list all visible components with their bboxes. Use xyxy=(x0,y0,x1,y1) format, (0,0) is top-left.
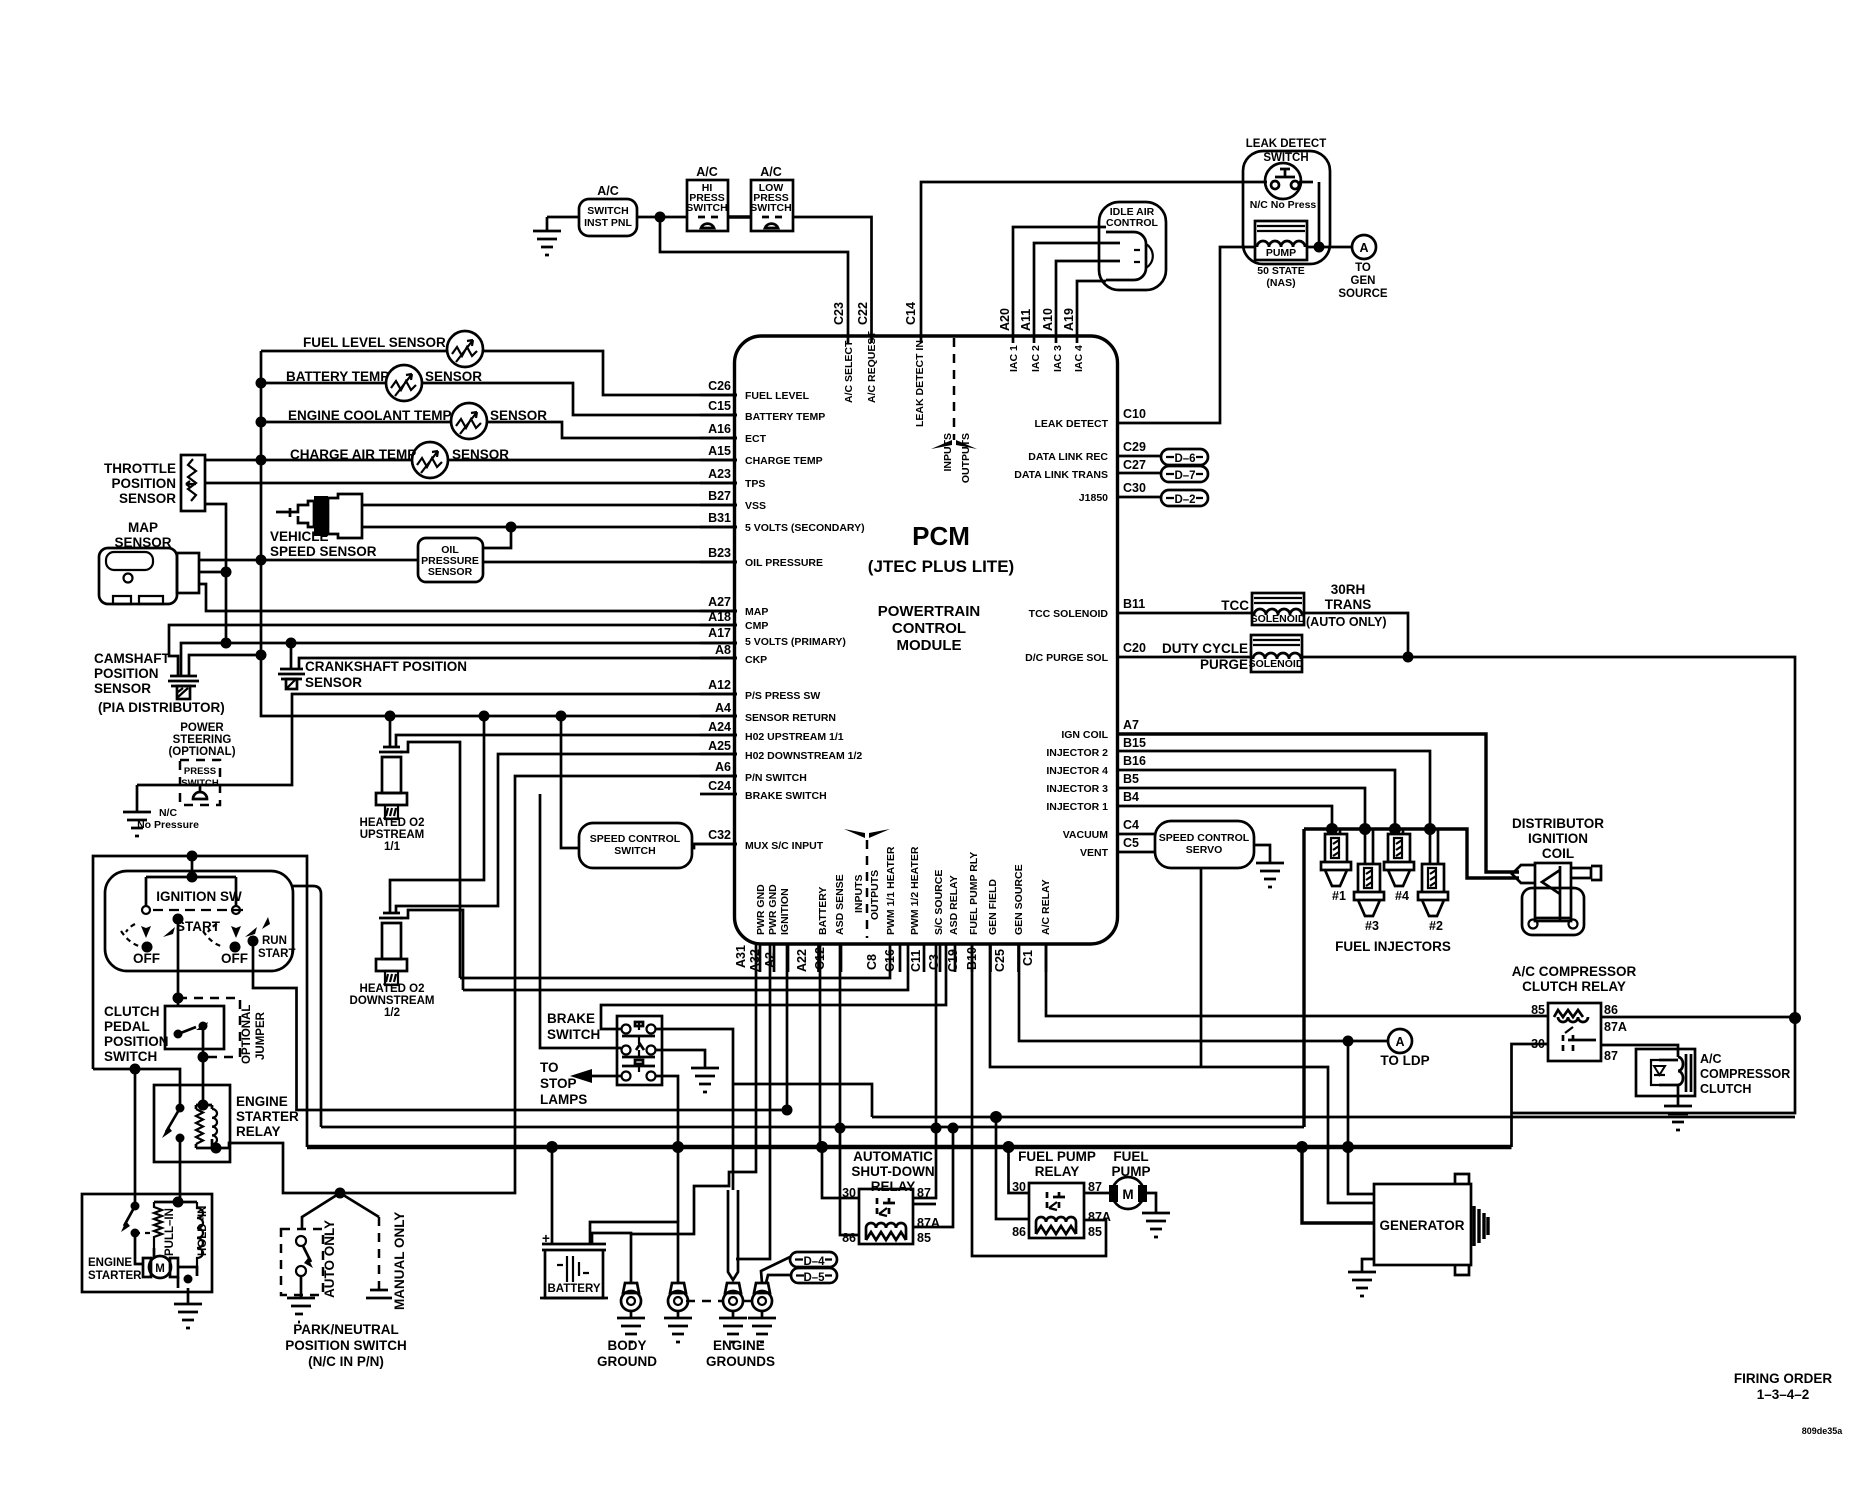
svg-text:TCC: TCC xyxy=(1221,598,1249,613)
A/C low press switch S3 xyxy=(751,180,793,231)
node purge junction xyxy=(1403,652,1414,663)
battery B1 xyxy=(540,1147,608,1298)
svg-text:DATA LINK TRANS: DATA LINK TRANS xyxy=(1014,469,1108,481)
wire a/c relay 86 to junction xyxy=(1601,1016,1795,1019)
node injector 2 feed xyxy=(1424,823,1436,835)
svg-text:85: 85 xyxy=(917,1231,931,1245)
svg-text:B11: B11 xyxy=(1123,597,1145,611)
svg-text:ECT: ECT xyxy=(745,433,767,445)
svg-text:B5: B5 xyxy=(1123,772,1139,786)
svg-text:RELAY: RELAY xyxy=(1035,1164,1080,1179)
clutch pedal position switch S8 xyxy=(104,1004,224,1064)
inputs/outputs marker top xyxy=(953,338,956,440)
node injector 1 feed xyxy=(1326,823,1338,835)
svg-text:PCM: PCM xyxy=(912,521,970,551)
svg-text:IAC 4: IAC 4 xyxy=(1073,345,1085,372)
svg-text:SOLENOID: SOLENOID xyxy=(1251,613,1306,625)
svg-text:INST PNL: INST PNL xyxy=(584,217,632,229)
node ignition feed xyxy=(187,851,198,862)
node TPS/MAP 5v junction xyxy=(221,638,232,649)
svg-text:1–3–4–2: 1–3–4–2 xyxy=(1757,1387,1810,1402)
leak detect switch S4 xyxy=(1243,138,1330,264)
svg-text:IGNITION: IGNITION xyxy=(1528,831,1588,846)
speed control servo U8 xyxy=(1155,821,1254,868)
svg-text:M: M xyxy=(1122,1187,1133,1202)
svg-text:FUEL: FUEL xyxy=(1113,1149,1148,1164)
svg-text:B16: B16 xyxy=(1123,754,1146,768)
wire B10 gen field xyxy=(990,944,1374,1203)
svg-text:H02 UPSTREAM 1/1: H02 UPSTREAM 1/1 xyxy=(745,731,844,743)
wire hi press to low press xyxy=(728,215,751,218)
svg-text:LEAK DETECT: LEAK DETECT xyxy=(1035,418,1109,430)
svg-text:MAP: MAP xyxy=(745,606,768,618)
wire cam sensor return xyxy=(189,655,261,676)
svg-text:PULL–IN: PULL–IN xyxy=(164,1208,176,1256)
svg-text:C19: C19 xyxy=(946,949,960,972)
svg-text:SWITCH: SWITCH xyxy=(686,202,727,214)
svg-text:POSITION: POSITION xyxy=(94,666,159,681)
svg-text:CLUTCH: CLUTCH xyxy=(104,1004,160,1019)
wire generator ground lead xyxy=(1362,1259,1374,1272)
ground (engine starter) xyxy=(174,1288,202,1328)
svg-text:A12: A12 xyxy=(708,678,731,692)
svg-text:FUEL LEVEL: FUEL LEVEL xyxy=(745,390,810,402)
svg-text:SWITCH: SWITCH xyxy=(614,845,655,857)
engine starter relay K1 xyxy=(154,1085,299,1162)
svg-text:30: 30 xyxy=(1012,1180,1026,1194)
svg-text:OPTIONAL: OPTIONAL xyxy=(241,1005,253,1064)
wire C19 fuel pump rly xyxy=(972,944,1106,1256)
svg-text:RUN: RUN xyxy=(262,935,287,947)
wire C11 s/c source to ASD 87 xyxy=(914,944,936,1198)
wire brake row3 to stop lamps xyxy=(592,1075,621,1078)
svg-text:TPS: TPS xyxy=(745,478,765,490)
svg-text:INJECTOR 3: INJECTOR 3 xyxy=(1046,783,1108,795)
svg-text:HEATED O2: HEATED O2 xyxy=(360,983,425,995)
svg-text:85: 85 xyxy=(1088,1225,1102,1239)
wire A7 ign coil xyxy=(1117,734,1519,872)
wire starter relay feed xyxy=(93,1069,180,1108)
wire injector 3 terminals xyxy=(1365,829,1373,864)
svg-text:AUTO ONLY: AUTO ONLY xyxy=(322,1220,337,1298)
svg-text:C24: C24 xyxy=(708,779,731,793)
PCM module box U1 xyxy=(735,336,1118,944)
wire PWM 1/2 heater C16 xyxy=(463,944,908,990)
bus wire asd output y1117 xyxy=(733,1084,1795,1117)
svg-text:VSS: VSS xyxy=(745,500,766,512)
svg-text:A/C RELAY: A/C RELAY xyxy=(1040,879,1052,935)
svg-text:1/2: 1/2 xyxy=(384,1007,400,1019)
node ign sw feed split xyxy=(187,872,198,883)
svg-text:C22: C22 xyxy=(856,302,870,325)
svg-text:SWITCH: SWITCH xyxy=(587,205,628,217)
engine starter M3 xyxy=(82,1194,212,1292)
svg-text:S/C SOURCE: S/C SOURCE xyxy=(933,870,945,935)
svg-text:COMPRESSOR: COMPRESSOR xyxy=(1700,1067,1790,1081)
svg-text:IAC 1: IAC 1 xyxy=(1008,345,1020,372)
svg-text:#3: #3 xyxy=(1365,919,1379,933)
ground (speed control servo) xyxy=(1256,863,1284,887)
wire MAP signal to A27 xyxy=(199,584,737,611)
svg-text:SWITCH: SWITCH xyxy=(547,1027,600,1042)
svg-text:CONTROL: CONTROL xyxy=(892,620,966,637)
node battery positive tap xyxy=(546,1141,558,1153)
wire C25 gen source xyxy=(1019,944,1388,1041)
pin A12 xyxy=(700,693,737,696)
svg-text:STEERING: STEERING xyxy=(173,734,232,746)
svg-text:MUX S/C INPUT: MUX S/C INPUT xyxy=(745,840,824,852)
distributor ignition coil T1 xyxy=(1512,816,1604,935)
fuel pump M4 xyxy=(1109,1149,1151,1209)
wire pwr gnd A31 xyxy=(631,944,756,1234)
bus wire ignition-run y1127 xyxy=(321,1126,1304,1129)
injector #1 xyxy=(1321,834,1351,903)
svg-text:#1: #1 xyxy=(1332,889,1346,903)
node battery temp return xyxy=(256,378,267,389)
svg-text:B15: B15 xyxy=(1123,736,1146,750)
wire B11 tcc solenoid xyxy=(1117,612,1252,615)
svg-text:CHARGE TEMP: CHARGE TEMP xyxy=(745,455,823,467)
svg-text:COIL: COIL xyxy=(1542,846,1574,861)
svg-text:CONTROL: CONTROL xyxy=(1106,217,1158,229)
svg-text:JUMPER: JUMPER xyxy=(255,1011,267,1060)
svg-text:87A: 87A xyxy=(1088,1210,1111,1224)
wire ASD 30 xyxy=(822,1147,859,1198)
svg-text:PEDAL: PEDAL xyxy=(104,1019,150,1034)
automatic shut-down relay K2 xyxy=(842,1149,940,1245)
svg-text:A15: A15 xyxy=(708,444,731,458)
pin A16 xyxy=(700,437,737,440)
svg-text:INPUTS: INPUTS xyxy=(853,874,865,913)
oil pressure sensor U2 xyxy=(418,538,483,582)
svg-text:PWM 1/1 HEATER: PWM 1/1 HEATER xyxy=(885,846,897,935)
ground (park/neutral) xyxy=(287,1298,315,1322)
wire fuel pump relay 87 to pump xyxy=(1084,1192,1109,1195)
svg-text:C3: C3 xyxy=(927,954,941,970)
pin A25 xyxy=(700,753,737,756)
wire TPS 5v to primary bus xyxy=(205,504,226,643)
svg-text:MODULE: MODULE xyxy=(897,637,962,654)
svg-text:87: 87 xyxy=(917,1186,931,1200)
svg-text:30RH: 30RH xyxy=(1331,582,1366,597)
wire MAP 5v primary xyxy=(199,571,226,574)
wire servo ground lead xyxy=(1254,845,1270,863)
svg-text:A31: A31 xyxy=(734,945,748,968)
svg-text:A27: A27 xyxy=(708,595,731,609)
duty cycle purge solenoid L2 xyxy=(1249,635,1304,672)
ground (P/S switch) xyxy=(123,785,151,836)
svg-text:GENERATOR: GENERATOR xyxy=(1379,1218,1464,1233)
wire 5 volts primary bus to A17 xyxy=(181,643,737,676)
node P/N split xyxy=(335,1188,346,1199)
svg-text:FUEL INJECTORS: FUEL INJECTORS xyxy=(1335,939,1451,954)
svg-text:PARK/NEUTRAL: PARK/NEUTRAL xyxy=(293,1322,399,1337)
svg-text:809de35a: 809de35a xyxy=(1802,1426,1844,1436)
pin B27 xyxy=(700,504,737,507)
svg-text:SENSOR: SENSOR xyxy=(119,491,176,506)
svg-text:RELAY: RELAY xyxy=(236,1124,281,1139)
svg-text:87A: 87A xyxy=(1604,1020,1627,1034)
A/C hi press switch S2 xyxy=(687,180,728,231)
svg-text:PWR GND: PWR GND xyxy=(767,884,779,935)
svg-text:TO LDP: TO LDP xyxy=(1380,1053,1429,1068)
svg-text:(PIA DISTRIBUTOR): (PIA DISTRIBUTOR) xyxy=(98,700,225,715)
wire C22 a/c request xyxy=(793,217,872,343)
pin A6 xyxy=(700,775,737,778)
svg-text:LEAK DETECT: LEAK DETECT xyxy=(1246,138,1327,150)
wire ASD 87A xyxy=(913,1129,953,1227)
svg-text:A10: A10 xyxy=(1041,308,1055,331)
svg-text:TCC SOLENOID: TCC SOLENOID xyxy=(1029,608,1109,620)
wire C10 leak detect xyxy=(1117,247,1255,423)
node A4 return O2 downstream tap xyxy=(479,711,490,722)
svg-text:C15: C15 xyxy=(708,399,731,413)
svg-text:C26: C26 xyxy=(708,379,731,393)
wire injector 1 terminals xyxy=(1332,829,1340,834)
pin C24 xyxy=(700,793,737,796)
svg-text:A4: A4 xyxy=(715,701,731,715)
wire charge air temp to A15 xyxy=(205,459,737,462)
ground (fuel pump) xyxy=(1142,1213,1170,1237)
svg-text:INJECTOR 2: INJECTOR 2 xyxy=(1046,747,1108,759)
svg-text:PRESS: PRESS xyxy=(184,766,216,777)
wire crank sensor CKP to A8 xyxy=(299,658,737,669)
wire fuel pump relay 30 xyxy=(1009,1147,1030,1193)
svg-text:H02 DOWNSTREAM 1/2: H02 DOWNSTREAM 1/2 xyxy=(745,750,862,762)
svg-text:A19: A19 xyxy=(1062,308,1076,331)
svg-text:POSITION: POSITION xyxy=(104,1034,169,1049)
wire dashed ground link xyxy=(686,1300,752,1303)
connector A to LDP xyxy=(1388,1029,1412,1053)
wire TPS signal to A23 xyxy=(205,482,737,485)
svg-text:D–5: D–5 xyxy=(803,1272,825,1284)
svg-text:SENSOR: SENSOR xyxy=(305,675,362,690)
svg-text:D–4: D–4 xyxy=(803,1256,825,1268)
wire injector 2 terminals xyxy=(1430,829,1438,864)
wire speed control switch return xyxy=(561,716,579,848)
node A/C junction xyxy=(655,212,666,223)
svg-text:C5: C5 xyxy=(1123,836,1139,850)
svg-text:A17: A17 xyxy=(708,626,731,640)
svg-text:OFF: OFF xyxy=(221,951,248,966)
injector #2 xyxy=(1418,864,1448,933)
pin A27 xyxy=(700,610,737,613)
svg-text:SOLENOID: SOLENOID xyxy=(1249,658,1304,670)
svg-text:C8: C8 xyxy=(865,954,879,970)
svg-text:FIRING ORDER: FIRING ORDER xyxy=(1734,1371,1833,1386)
svg-text:TO: TO xyxy=(540,1060,559,1075)
wire a/c relay 85 from C1 xyxy=(1046,944,1548,1016)
node C12 on y1127 xyxy=(835,1123,846,1134)
node A4 return O2 upstream tap xyxy=(385,711,396,722)
wire VSS to B27 xyxy=(362,504,737,507)
svg-text:INJECTOR 4: INJECTOR 4 xyxy=(1046,765,1108,777)
svg-text:SERVO: SERVO xyxy=(1186,844,1223,856)
node fuel pump relay 30 tap xyxy=(1003,1141,1015,1153)
wire P/N auto branch xyxy=(302,1193,340,1229)
svg-text:(AUTO ONLY): (AUTO ONLY) xyxy=(1306,615,1387,629)
wire D-4 connector lead xyxy=(761,1257,790,1283)
svg-text:MAP: MAP xyxy=(128,520,158,535)
node oil pressure return xyxy=(256,555,267,566)
svg-text:PWR GND: PWR GND xyxy=(755,884,767,935)
svg-text:START: START xyxy=(176,919,221,934)
wire O2 downstream signal to A25 xyxy=(396,754,737,913)
svg-text:86: 86 xyxy=(1604,1003,1618,1017)
wire O2 downstream heater xyxy=(400,910,463,990)
svg-text:MANUAL ONLY: MANUAL ONLY xyxy=(392,1212,407,1310)
svg-text:D–6: D–6 xyxy=(1174,453,1195,465)
svg-text:PURGE: PURGE xyxy=(1200,657,1248,672)
wire oil pressure return xyxy=(261,559,418,562)
pin C15 xyxy=(700,414,737,417)
svg-text:D–7: D–7 xyxy=(1174,470,1195,482)
PCM right pin stubs and labels xyxy=(1014,407,1156,859)
a/c compressor clutch relay K4 xyxy=(1512,964,1637,1063)
wire pump to gen source connector xyxy=(1307,246,1352,249)
node LDP branch tap xyxy=(1342,1141,1354,1153)
svg-text:OFF: OFF xyxy=(133,951,160,966)
wire start contact to clutch switch xyxy=(177,919,180,1006)
wire 30 bus under clutch xyxy=(1512,1018,1796,1113)
svg-text:HOLD–IN: HOLD–IN xyxy=(197,1206,209,1256)
node asd sense feed xyxy=(990,1111,1002,1123)
svg-text:SWITCH: SWITCH xyxy=(750,202,791,214)
wire brake row3 right to main feed xyxy=(656,1076,678,1147)
svg-text:PUMP: PUMP xyxy=(1266,247,1296,259)
ground (brake switch) xyxy=(691,1068,719,1092)
svg-text:OUTPUTS: OUTPUTS xyxy=(869,870,881,920)
svg-text:A/C SELECT: A/C SELECT xyxy=(843,340,855,403)
svg-text:A/C: A/C xyxy=(597,184,619,198)
pin A17 xyxy=(700,642,737,645)
wire fuel pump relay 86 xyxy=(996,1117,1029,1219)
wire P/N manual branch xyxy=(340,1193,379,1217)
svg-text:N/C No Press: N/C No Press xyxy=(1250,199,1317,211)
pin A4 xyxy=(700,715,737,718)
svg-text:A24: A24 xyxy=(708,720,731,734)
wire brake row1 left to C3 asd relay xyxy=(601,944,946,1029)
node ASD 87A riser on y1127 xyxy=(948,1123,959,1134)
wire B5 injector 3 xyxy=(1117,788,1365,829)
wire brake row2 right to ground xyxy=(656,1050,705,1068)
wire relay coil low to P/N net xyxy=(216,776,737,1193)
svg-text:C29: C29 xyxy=(1123,440,1146,454)
wire O2 upstream return xyxy=(389,716,392,747)
svg-text:A23: A23 xyxy=(708,467,731,481)
svg-text:B4: B4 xyxy=(1123,790,1139,804)
svg-text:C1: C1 xyxy=(1021,950,1035,966)
vehicle speed sensor M2 xyxy=(270,494,377,559)
svg-text:UPSTREAM: UPSTREAM xyxy=(360,829,425,841)
wire oil pressure signal to B23 xyxy=(483,561,737,564)
wire C24 to brake row2 xyxy=(540,794,621,1048)
park/neutral position switch S9 xyxy=(281,1212,407,1369)
connector D-6 xyxy=(1117,449,1208,465)
wire ASD 86 xyxy=(840,1129,859,1235)
wire ignition bus A2 xyxy=(786,944,789,1110)
wire A/C switch to hi press switch xyxy=(637,216,687,219)
A/C switch inst pnl S1 xyxy=(579,199,637,236)
wire leak detect switch to pump junction xyxy=(1318,182,1321,247)
svg-text:AUTOMATIC: AUTOMATIC xyxy=(853,1149,933,1164)
node starter feed xyxy=(130,1064,141,1075)
node A4 return speed control tap xyxy=(556,711,567,722)
wire purge to right riser xyxy=(1302,657,1795,1018)
connector D-5 xyxy=(791,1268,837,1284)
wire B15 injector 2 xyxy=(1117,751,1430,829)
svg-text:GEN: GEN xyxy=(1351,275,1376,287)
svg-text:A7: A7 xyxy=(1123,718,1139,732)
wire C14 leak detect in xyxy=(921,182,1245,343)
svg-text:(JTEC PLUS LITE): (JTEC PLUS LITE) xyxy=(868,557,1014,576)
heated O2 downstream sensor U7 xyxy=(350,913,435,1019)
wire battery negative to body ground xyxy=(592,1233,631,1283)
svg-text:GEN FIELD: GEN FIELD xyxy=(987,879,999,935)
connector D-7 xyxy=(1117,466,1208,482)
power steering press switch S5 xyxy=(137,722,236,831)
connector D-4 xyxy=(790,1252,837,1268)
wire a/c relay 30 xyxy=(1512,1044,1549,1147)
svg-text:SENSOR: SENSOR xyxy=(94,681,151,696)
svg-text:A/C: A/C xyxy=(760,165,782,179)
svg-text:A22: A22 xyxy=(795,949,809,972)
wire B4 injector 1 xyxy=(1117,806,1332,829)
svg-text:C25: C25 xyxy=(993,949,1007,972)
svg-text:INPUTS: INPUTS xyxy=(942,433,954,472)
svg-text:FUEL PUMP RLY: FUEL PUMP RLY xyxy=(968,852,980,935)
svg-text:5 VOLTS (PRIMARY): 5 VOLTS (PRIMARY) xyxy=(745,636,846,648)
wire fuel pump to ground xyxy=(1147,1193,1156,1213)
svg-text:P/S PRESS SW: P/S PRESS SW xyxy=(745,690,820,702)
wire cam sensor CMP to A18 xyxy=(169,625,737,676)
svg-text:(OPTIONAL): (OPTIONAL) xyxy=(168,746,235,758)
svg-text:N/C: N/C xyxy=(159,807,178,819)
wire battery negative to engine ground xyxy=(590,1222,678,1283)
svg-text:DISTRIBUTOR: DISTRIBUTOR xyxy=(1512,816,1604,831)
wire D-5 connector lead xyxy=(766,1275,791,1283)
bus wire main feed y1147 xyxy=(307,1145,1512,1150)
svg-text:VENT: VENT xyxy=(1080,847,1109,859)
wire O2 downstream return xyxy=(390,716,484,913)
svg-text:C32: C32 xyxy=(708,828,731,842)
wire P/S switch to A12 xyxy=(137,694,737,785)
svg-text:BODY: BODY xyxy=(607,1338,646,1353)
svg-text:ASD SENSE: ASD SENSE xyxy=(834,874,846,935)
ring terminal (body ground) xyxy=(597,1283,657,1369)
pin A23 xyxy=(700,482,737,485)
svg-text:OIL PRESSURE: OIL PRESSURE xyxy=(745,557,823,569)
node injector 3 feed xyxy=(1359,823,1371,835)
svg-text:ENGINE: ENGINE xyxy=(236,1094,288,1109)
wire IAC 3 (A10) xyxy=(1056,261,1120,343)
svg-text:C4: C4 xyxy=(1123,818,1139,832)
svg-text:DUTY CYCLE: DUTY CYCLE xyxy=(1162,641,1248,656)
svg-text:A8: A8 xyxy=(715,643,731,657)
svg-text:CMP: CMP xyxy=(745,620,768,632)
svg-text:DOWNSTREAM: DOWNSTREAM xyxy=(350,995,435,1007)
svg-text:SWITCH: SWITCH xyxy=(104,1049,157,1064)
svg-text:(N/C IN P/N): (N/C IN P/N) xyxy=(308,1354,384,1369)
wire generator output xyxy=(1302,1147,1374,1223)
node coolant temp return xyxy=(256,417,267,428)
map sensor U3 xyxy=(99,520,199,604)
engine ground strap (double line) xyxy=(728,1190,738,1280)
fuel pump relay K3 xyxy=(1012,1149,1111,1239)
node A2 ignition junction xyxy=(782,1105,793,1116)
svg-text:SENSOR: SENSOR xyxy=(428,566,473,578)
node brake feed tap xyxy=(672,1141,684,1153)
